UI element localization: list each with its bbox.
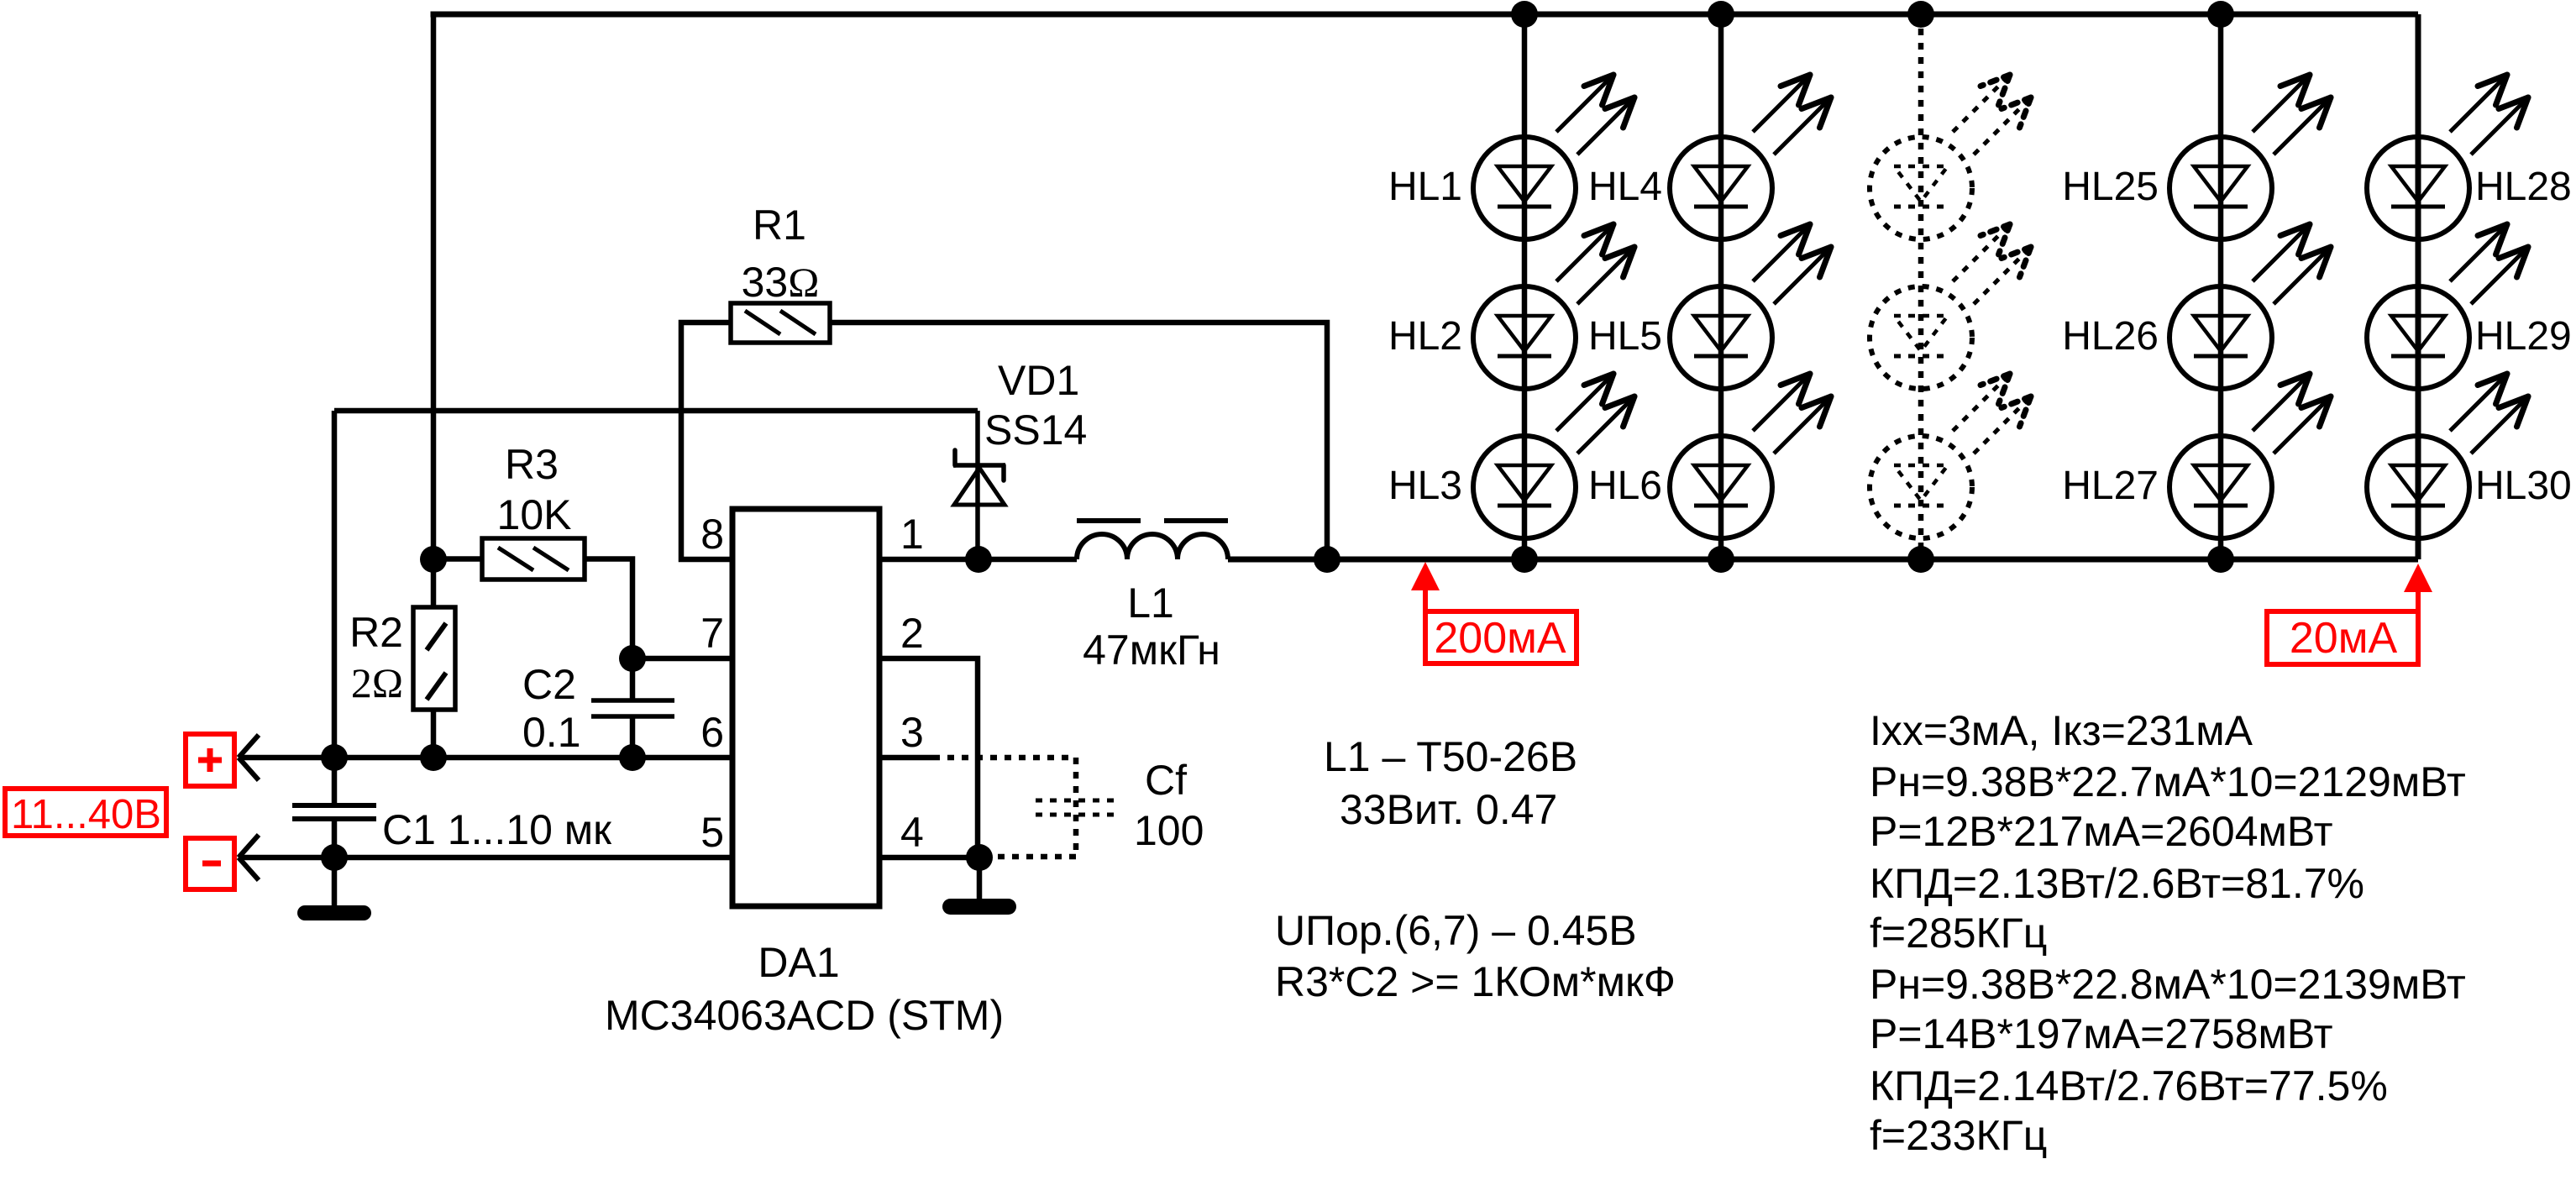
capacitor C1 <box>292 803 376 808</box>
svg-text:4: 4 <box>900 809 924 856</box>
wire Vin vertical from top rail to R2/R3 node <box>431 14 437 559</box>
svg-text:2Ω: 2Ω <box>351 659 403 706</box>
svg-text:33Вит. 0.47: 33Вит. 0.47 <box>1340 786 1557 833</box>
svg-text:10K: 10K <box>497 491 572 538</box>
wire R2 bottom lead <box>431 710 437 758</box>
svg-text:R2: R2 <box>349 609 403 656</box>
wire C1 top lead <box>332 758 338 803</box>
svg-text:HL4: HL4 <box>1588 165 1662 209</box>
svg-text:DA1: DA1 <box>758 939 839 986</box>
svg-text:33Ω: 33Ω <box>742 259 820 306</box>
wire VD1 cathode rail y=489 <box>334 408 978 414</box>
node junction (753,784) <box>619 645 646 672</box>
wire left vertical x=398 down to pin6 rail <box>332 411 338 758</box>
LED HL2 <box>1473 286 1576 389</box>
wire pin 5 / - input rail <box>239 855 732 861</box>
diode VD1 schottky <box>953 463 1005 468</box>
svg-text:P=12В*217мА=2604мВт: P=12В*217мА=2604мВт <box>1870 808 2333 855</box>
terminal + box <box>186 734 234 786</box>
svg-text:f=233КГц: f=233КГц <box>1870 1112 2047 1159</box>
LED optional (dashed) <box>1870 286 1972 389</box>
wire pin 6 / + input rail <box>239 755 732 761</box>
svg-text:C2: C2 <box>522 661 576 708</box>
LED HL1 <box>1473 137 1576 239</box>
wire L1 right to LED bottom rail <box>1228 557 2418 563</box>
node 200мА annotation <box>1425 584 1577 663</box>
node junction (398,1021) <box>321 844 348 871</box>
wire LED column x=2049 <box>1718 14 1724 559</box>
LED HL30 <box>2367 436 2469 538</box>
LED HL29 <box>2367 286 2469 389</box>
wire pin 3 dashed to Cf <box>933 755 1076 761</box>
capacitor Cf dashed <box>1036 799 1119 803</box>
capacitor C2 <box>591 698 674 703</box>
ground below DA1 pin4 <box>942 899 1016 915</box>
wire C2 bottom lead <box>630 716 636 758</box>
svg-text:0.1: 0.1 <box>522 709 581 756</box>
node junction (1166,1021) <box>966 844 993 871</box>
wire ground stub below C1 <box>332 857 338 906</box>
node 20мА annotation <box>2267 584 2418 664</box>
LED HL25 <box>2169 137 2272 239</box>
terminal - arrowhead <box>239 835 259 857</box>
svg-text:2: 2 <box>900 610 924 657</box>
svg-text:L1 – T50-26В: L1 – T50-26В <box>1324 733 1577 780</box>
svg-text:HL1: HL1 <box>1388 165 1462 209</box>
svg-text:КПД=2.13Вт/2.6Вт=81.7%: КПД=2.13Вт/2.6Вт=81.7% <box>1870 860 2364 907</box>
svg-text:6: 6 <box>700 709 724 756</box>
svg-text:КПД=2.14Вт/2.76Вт=77.5%: КПД=2.14Вт/2.76Вт=77.5% <box>1870 1062 2388 1109</box>
wire ground stub below pin4 node <box>977 857 983 899</box>
wire pin 4 <box>879 855 979 861</box>
wire pin 8 to R1 left terminal <box>681 323 732 559</box>
LED HL28 <box>2367 137 2469 239</box>
svg-text:HL28: HL28 <box>2475 165 2572 209</box>
svg-text:1: 1 <box>900 511 924 558</box>
node junction (2049,666) <box>1708 546 1734 573</box>
wire C1 bottom lead <box>332 821 338 857</box>
wire Cf dashed return to pin4 node <box>993 854 1076 860</box>
wire LED column x=1815 <box>1522 14 1528 559</box>
wire LED column x=2287 <box>1918 14 1924 559</box>
svg-text:3: 3 <box>900 709 924 756</box>
svg-text:HL27: HL27 <box>2062 464 2159 508</box>
LED HL27 <box>2169 436 2272 538</box>
wire R3 left stub <box>433 556 482 562</box>
wire LED column x=2644 <box>2218 14 2224 559</box>
svg-text:5: 5 <box>700 809 724 856</box>
LED optional (dashed) <box>1870 137 1972 239</box>
wire R2 top lead <box>431 559 437 607</box>
node junction (398,902) <box>321 744 348 771</box>
svg-text:Pн=9.38В*22.7мА*10=2129мВт: Pн=9.38В*22.7мА*10=2129мВт <box>1870 758 2466 805</box>
svg-text:8: 8 <box>700 511 724 558</box>
resistor R1 <box>731 303 830 343</box>
node junction (753,902) <box>619 744 646 771</box>
svg-text:HL25: HL25 <box>2062 165 2159 209</box>
LED HL4 <box>1670 137 1772 239</box>
svg-text:MC34063ACD (STM): MC34063ACD (STM) <box>605 992 1004 1039</box>
svg-text:SS14: SS14 <box>984 406 1087 454</box>
svg-text:HL3: HL3 <box>1388 464 1462 508</box>
svg-text:HL2: HL2 <box>1388 314 1462 359</box>
svg-text:Iхх=3мА, Iкз=231мА: Iхх=3мА, Iкз=231мА <box>1870 707 2253 754</box>
svg-text:11...40В: 11...40В <box>11 792 161 837</box>
LED HL6 <box>1670 436 1772 538</box>
svg-text:HL6: HL6 <box>1588 464 1662 508</box>
node junction (1580,666) <box>1314 546 1340 573</box>
node junction (1815,666) <box>1511 546 1538 573</box>
LED HL5 <box>1670 286 1772 389</box>
node 11...40В label box <box>5 789 166 836</box>
svg-text:47мкГн: 47мкГн <box>1083 627 1220 674</box>
wire Cf dashed vertical <box>1073 758 1079 857</box>
svg-text:7: 7 <box>700 610 724 657</box>
svg-text:R1: R1 <box>753 202 806 249</box>
svg-text:HL30: HL30 <box>2475 464 2572 508</box>
wire VD1 vertical through diode <box>975 411 980 559</box>
svg-text:C1 1...10 мк: C1 1...10 мк <box>382 806 612 853</box>
wire R3 right to pin7 node <box>585 559 632 659</box>
node junction (2644,666) <box>2207 546 2234 573</box>
node junction (2287,666) <box>1907 546 1934 573</box>
svg-text:L1: L1 <box>1127 580 1174 627</box>
wire pin 2 over to x=1164 and down to pin4 node <box>879 658 978 857</box>
wire right column drop from top rail to HL28 string <box>2416 14 2421 559</box>
LED HL3 <box>1473 436 1576 538</box>
svg-text:UПор.(6,7) – 0.45В: UПор.(6,7) – 0.45В <box>1275 907 1637 954</box>
svg-text:f=285КГц: f=285КГц <box>1870 910 2047 957</box>
node junction (516,666) <box>420 546 447 573</box>
ground below C1 <box>297 905 371 920</box>
svg-text:HL29: HL29 <box>2475 314 2572 359</box>
resistor R2 <box>413 607 455 710</box>
svg-text:Pн=9.38В*22.8мА*10=2139мВт: Pн=9.38В*22.8мА*10=2139мВт <box>1870 961 2466 1008</box>
svg-text:100: 100 <box>1134 807 1204 854</box>
wire C2 top lead <box>630 658 636 700</box>
terminal - box <box>186 838 234 889</box>
wire R1 right terminal down to output node <box>830 323 1327 559</box>
svg-text:20мА: 20мА <box>2290 614 2398 663</box>
inductor L1 <box>1077 534 1228 559</box>
terminal + arrowhead <box>239 735 259 758</box>
node junction (1165,666) <box>965 546 992 573</box>
svg-text:R3: R3 <box>505 441 559 488</box>
node junction (2049,17) <box>1708 1 1734 28</box>
wire pin 1 to L1 <box>879 557 1077 563</box>
svg-text:HL5: HL5 <box>1588 314 1662 359</box>
op-amp/converter IC DA1 body <box>732 509 879 906</box>
wire pin 7 <box>632 656 732 662</box>
svg-text:Cf: Cf <box>1145 757 1187 804</box>
LED optional (dashed) <box>1870 436 1972 538</box>
svg-text:200мА: 200мА <box>1434 614 1566 663</box>
resistor R3 <box>482 538 585 580</box>
svg-text:VD1: VD1 <box>998 357 1079 404</box>
svg-text:R3*C2 >= 1КОм*мкФ: R3*C2 >= 1КОм*мкФ <box>1275 958 1676 1005</box>
wire top supply rail <box>431 12 2419 18</box>
svg-text:P=14В*197мА=2758мВт: P=14В*197мА=2758мВт <box>1870 1010 2333 1057</box>
svg-text:HL26: HL26 <box>2062 314 2159 359</box>
node junction (2644,17) <box>2207 1 2234 28</box>
LED HL26 <box>2169 286 2272 389</box>
node junction (2287,17) <box>1907 1 1934 28</box>
node junction (1815,17) <box>1511 1 1538 28</box>
wire pin 3 solid part <box>879 755 933 761</box>
node junction (516,902) <box>420 744 447 771</box>
